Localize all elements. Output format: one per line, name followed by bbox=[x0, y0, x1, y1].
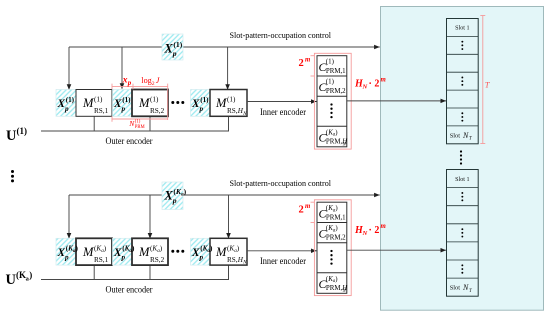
RS encoder M_RS,1^(1) bbox=[76, 90, 112, 117]
wire: riser to M_RS,2 (user 1) bbox=[149, 116, 151, 131]
vertical ellipsis between slot stacks bbox=[460, 150, 462, 152]
svg-text:Slot: Slot bbox=[450, 285, 461, 292]
wire: riser to M_RS,2 (user K_a) bbox=[149, 265, 151, 279]
red ticks for 2^m (user 1) bbox=[311, 55, 315, 57]
svg-text:RS,1: RS,1 bbox=[94, 107, 109, 115]
slot stack (user K_a) dots 2 bbox=[461, 228, 463, 230]
vertical ellipsis between users bbox=[11, 170, 14, 173]
svg-text:Slot 1: Slot 1 bbox=[455, 177, 470, 183]
slot stack (user 1) dots 2 bbox=[461, 77, 463, 79]
svg-text:M: M bbox=[138, 96, 150, 110]
slot stack (user K_a) dots 3 bbox=[461, 264, 463, 266]
svg-text:Outer encoder: Outer encoder bbox=[106, 136, 153, 146]
svg-text:(1): (1) bbox=[135, 120, 141, 125]
svg-text:(1): (1) bbox=[150, 96, 159, 104]
slot stack (user 1) dots 1 bbox=[461, 41, 463, 43]
svg-text:N: N bbox=[362, 230, 368, 237]
svg-text:· 2: · 2 bbox=[369, 78, 380, 89]
svg-text:RS,1: RS,1 bbox=[94, 256, 109, 264]
svg-text:(1): (1) bbox=[326, 59, 334, 66]
svg-text:2: 2 bbox=[152, 81, 155, 87]
pilot block X_p^(1) #3 bbox=[191, 90, 211, 117]
svg-text:p: p bbox=[199, 254, 204, 262]
RS encoder M_RS,1^(K_a) bbox=[76, 238, 112, 265]
wire: rail drop arrow into X_p block 1 (user K_a) bbox=[68, 195, 70, 239]
svg-text:RS,: RS, bbox=[227, 256, 238, 264]
wire: rail drop arrow into X_p block 2 (user 1) bbox=[121, 47, 123, 89]
svg-text:M: M bbox=[215, 245, 227, 259]
svg-text:M: M bbox=[82, 245, 94, 259]
slot stack (user 1) frame bbox=[447, 19, 479, 144]
svg-text:m: m bbox=[305, 57, 310, 64]
svg-text:p: p bbox=[127, 80, 132, 87]
pilot block X_p^(K_a) #2 bbox=[113, 238, 133, 265]
svg-text:log: log bbox=[141, 76, 151, 85]
wire: PRM stack to slots (user K_a) bbox=[347, 249, 446, 251]
svg-text:p: p bbox=[64, 105, 69, 113]
svg-text:2: 2 bbox=[299, 205, 304, 216]
slot stack (user K_a) frame bbox=[447, 170, 479, 297]
pilot block X_p^(1) #2 bbox=[113, 90, 133, 117]
svg-text:(1): (1) bbox=[94, 96, 103, 104]
svg-text:): ) bbox=[29, 270, 32, 280]
svg-text:N: N bbox=[362, 84, 368, 91]
dots inside PRM stack (user K_a) bbox=[330, 250, 332, 252]
wire: U^(K_a) input line bbox=[41, 265, 229, 279]
wire: slot-pattern control rail (user K_a) bbox=[69, 194, 380, 196]
svg-text:(1): (1) bbox=[17, 126, 28, 136]
svg-text:(1): (1) bbox=[66, 96, 75, 104]
pilot pattern block X_p^(K_a) on rail bbox=[162, 182, 183, 210]
svg-text:2: 2 bbox=[299, 58, 304, 69]
svg-text:p: p bbox=[172, 196, 177, 205]
red dimension line N_PRM bbox=[112, 118, 168, 120]
svg-text:M: M bbox=[138, 245, 150, 259]
red dimension T bbox=[482, 16, 484, 144]
wire: rail drop arrow into M_RS,2 (user K_a) bbox=[149, 195, 151, 239]
PRM codeword stack frame (user 1) bbox=[317, 56, 347, 147]
pilot block X_p^(1) #1 bbox=[56, 90, 76, 117]
svg-text:m: m bbox=[381, 77, 386, 84]
svg-text:PRM: PRM bbox=[135, 125, 146, 130]
slot stack (user 1) dots 3 bbox=[461, 112, 463, 114]
svg-text:(1): (1) bbox=[200, 96, 209, 104]
svg-text:U: U bbox=[6, 272, 17, 288]
wire: rail drop arrow into M_RS,H_N (user K_a) bbox=[228, 195, 230, 239]
svg-text:N: N bbox=[462, 283, 469, 292]
svg-text:Inner encoder: Inner encoder bbox=[260, 256, 306, 266]
RS encoder M_RS,H_N^(K_a) bbox=[210, 238, 247, 265]
svg-text:(Ka): (Ka) bbox=[173, 187, 186, 198]
svg-text:Slot-pattern-occupation contro: Slot-pattern-occupation control bbox=[230, 178, 332, 188]
svg-text:p: p bbox=[121, 105, 126, 113]
red frame around PRM stack (user K_a) bbox=[314, 200, 351, 296]
svg-text:PRM,1: PRM,1 bbox=[326, 214, 346, 221]
svg-text:RS,2: RS,2 bbox=[150, 107, 165, 115]
PRM codeword stack frame (user K_a) bbox=[317, 202, 347, 293]
svg-text:p: p bbox=[64, 254, 69, 262]
time-slot occupation frame bbox=[381, 7, 544, 311]
pilot block X_p^(K_a) #1 bbox=[56, 238, 76, 265]
svg-text:p: p bbox=[199, 105, 204, 113]
svg-text:Slot 1: Slot 1 bbox=[455, 26, 470, 32]
wire: RS to PRM stack (user 1) bbox=[247, 101, 317, 103]
red ticks for 2^m (user K_a) bbox=[311, 201, 315, 203]
svg-text:RS,: RS, bbox=[227, 107, 238, 115]
svg-text:p: p bbox=[172, 49, 177, 58]
ellipsis between RS encoders (user K_a) bbox=[171, 250, 174, 253]
wire: slot-pattern control rail (user 1) bbox=[69, 46, 380, 48]
RS encoder M_RS,H_N^(1) bbox=[210, 90, 247, 117]
svg-text:J: J bbox=[156, 76, 160, 85]
pilot block X_p^(K_a) #3 bbox=[191, 238, 211, 265]
wire: U^(1) input line bbox=[41, 116, 229, 131]
red dimension line x_p / log2 J bbox=[112, 85, 168, 87]
svg-text:p: p bbox=[121, 254, 126, 262]
svg-text:M: M bbox=[215, 96, 227, 110]
wire: rail drop arrow into X_p block 1 (user 1) bbox=[68, 47, 70, 90]
svg-text:PRM,2: PRM,2 bbox=[326, 235, 346, 242]
svg-text:PRM,2: PRM,2 bbox=[326, 88, 346, 95]
svg-text:m: m bbox=[381, 223, 386, 230]
RS encoder M_RS,2^(K_a) bbox=[132, 238, 168, 265]
slot stack (user K_a) dots 1 bbox=[461, 192, 463, 194]
wire: rail drop arrow into M_RS,H_N (user 1) bbox=[227, 47, 229, 90]
ellipsis between RS encoders (user 1) bbox=[171, 101, 174, 104]
svg-text:m: m bbox=[305, 203, 310, 210]
pilot pattern block X_p^(1) on rail bbox=[162, 34, 183, 60]
svg-text:Inner encoder: Inner encoder bbox=[260, 107, 306, 117]
svg-text:(1): (1) bbox=[326, 79, 334, 86]
wire: RS to PRM stack (user K_a) bbox=[247, 250, 317, 252]
svg-text:· 2: · 2 bbox=[369, 225, 380, 236]
svg-text:M: M bbox=[82, 96, 94, 110]
svg-text:RS,2: RS,2 bbox=[150, 256, 165, 264]
wire: riser to M_RS,1 (user K_a) bbox=[93, 265, 95, 279]
svg-text:(1): (1) bbox=[173, 40, 182, 49]
svg-text:U: U bbox=[6, 128, 17, 144]
dots inside PRM stack (user 1) bbox=[330, 103, 332, 105]
red frame around PRM stack (user 1) bbox=[314, 53, 351, 149]
svg-text:Slot-pattern-occupation contro: Slot-pattern-occupation control bbox=[230, 30, 332, 40]
svg-text:(1): (1) bbox=[122, 96, 131, 104]
wire: PRM stack to slots (user 1) bbox=[347, 100, 446, 102]
svg-text:Slot: Slot bbox=[450, 132, 461, 139]
RS encoder M_RS,2^(1) bbox=[132, 90, 168, 117]
svg-text:(1): (1) bbox=[227, 96, 236, 104]
svg-text:N: N bbox=[462, 131, 469, 140]
wire: riser to M_RS,1 (user 1) bbox=[93, 116, 95, 131]
svg-text:PRM,1: PRM,1 bbox=[326, 68, 346, 75]
svg-text:(K: (K bbox=[16, 270, 26, 280]
svg-text:Outer encoder: Outer encoder bbox=[106, 285, 153, 295]
